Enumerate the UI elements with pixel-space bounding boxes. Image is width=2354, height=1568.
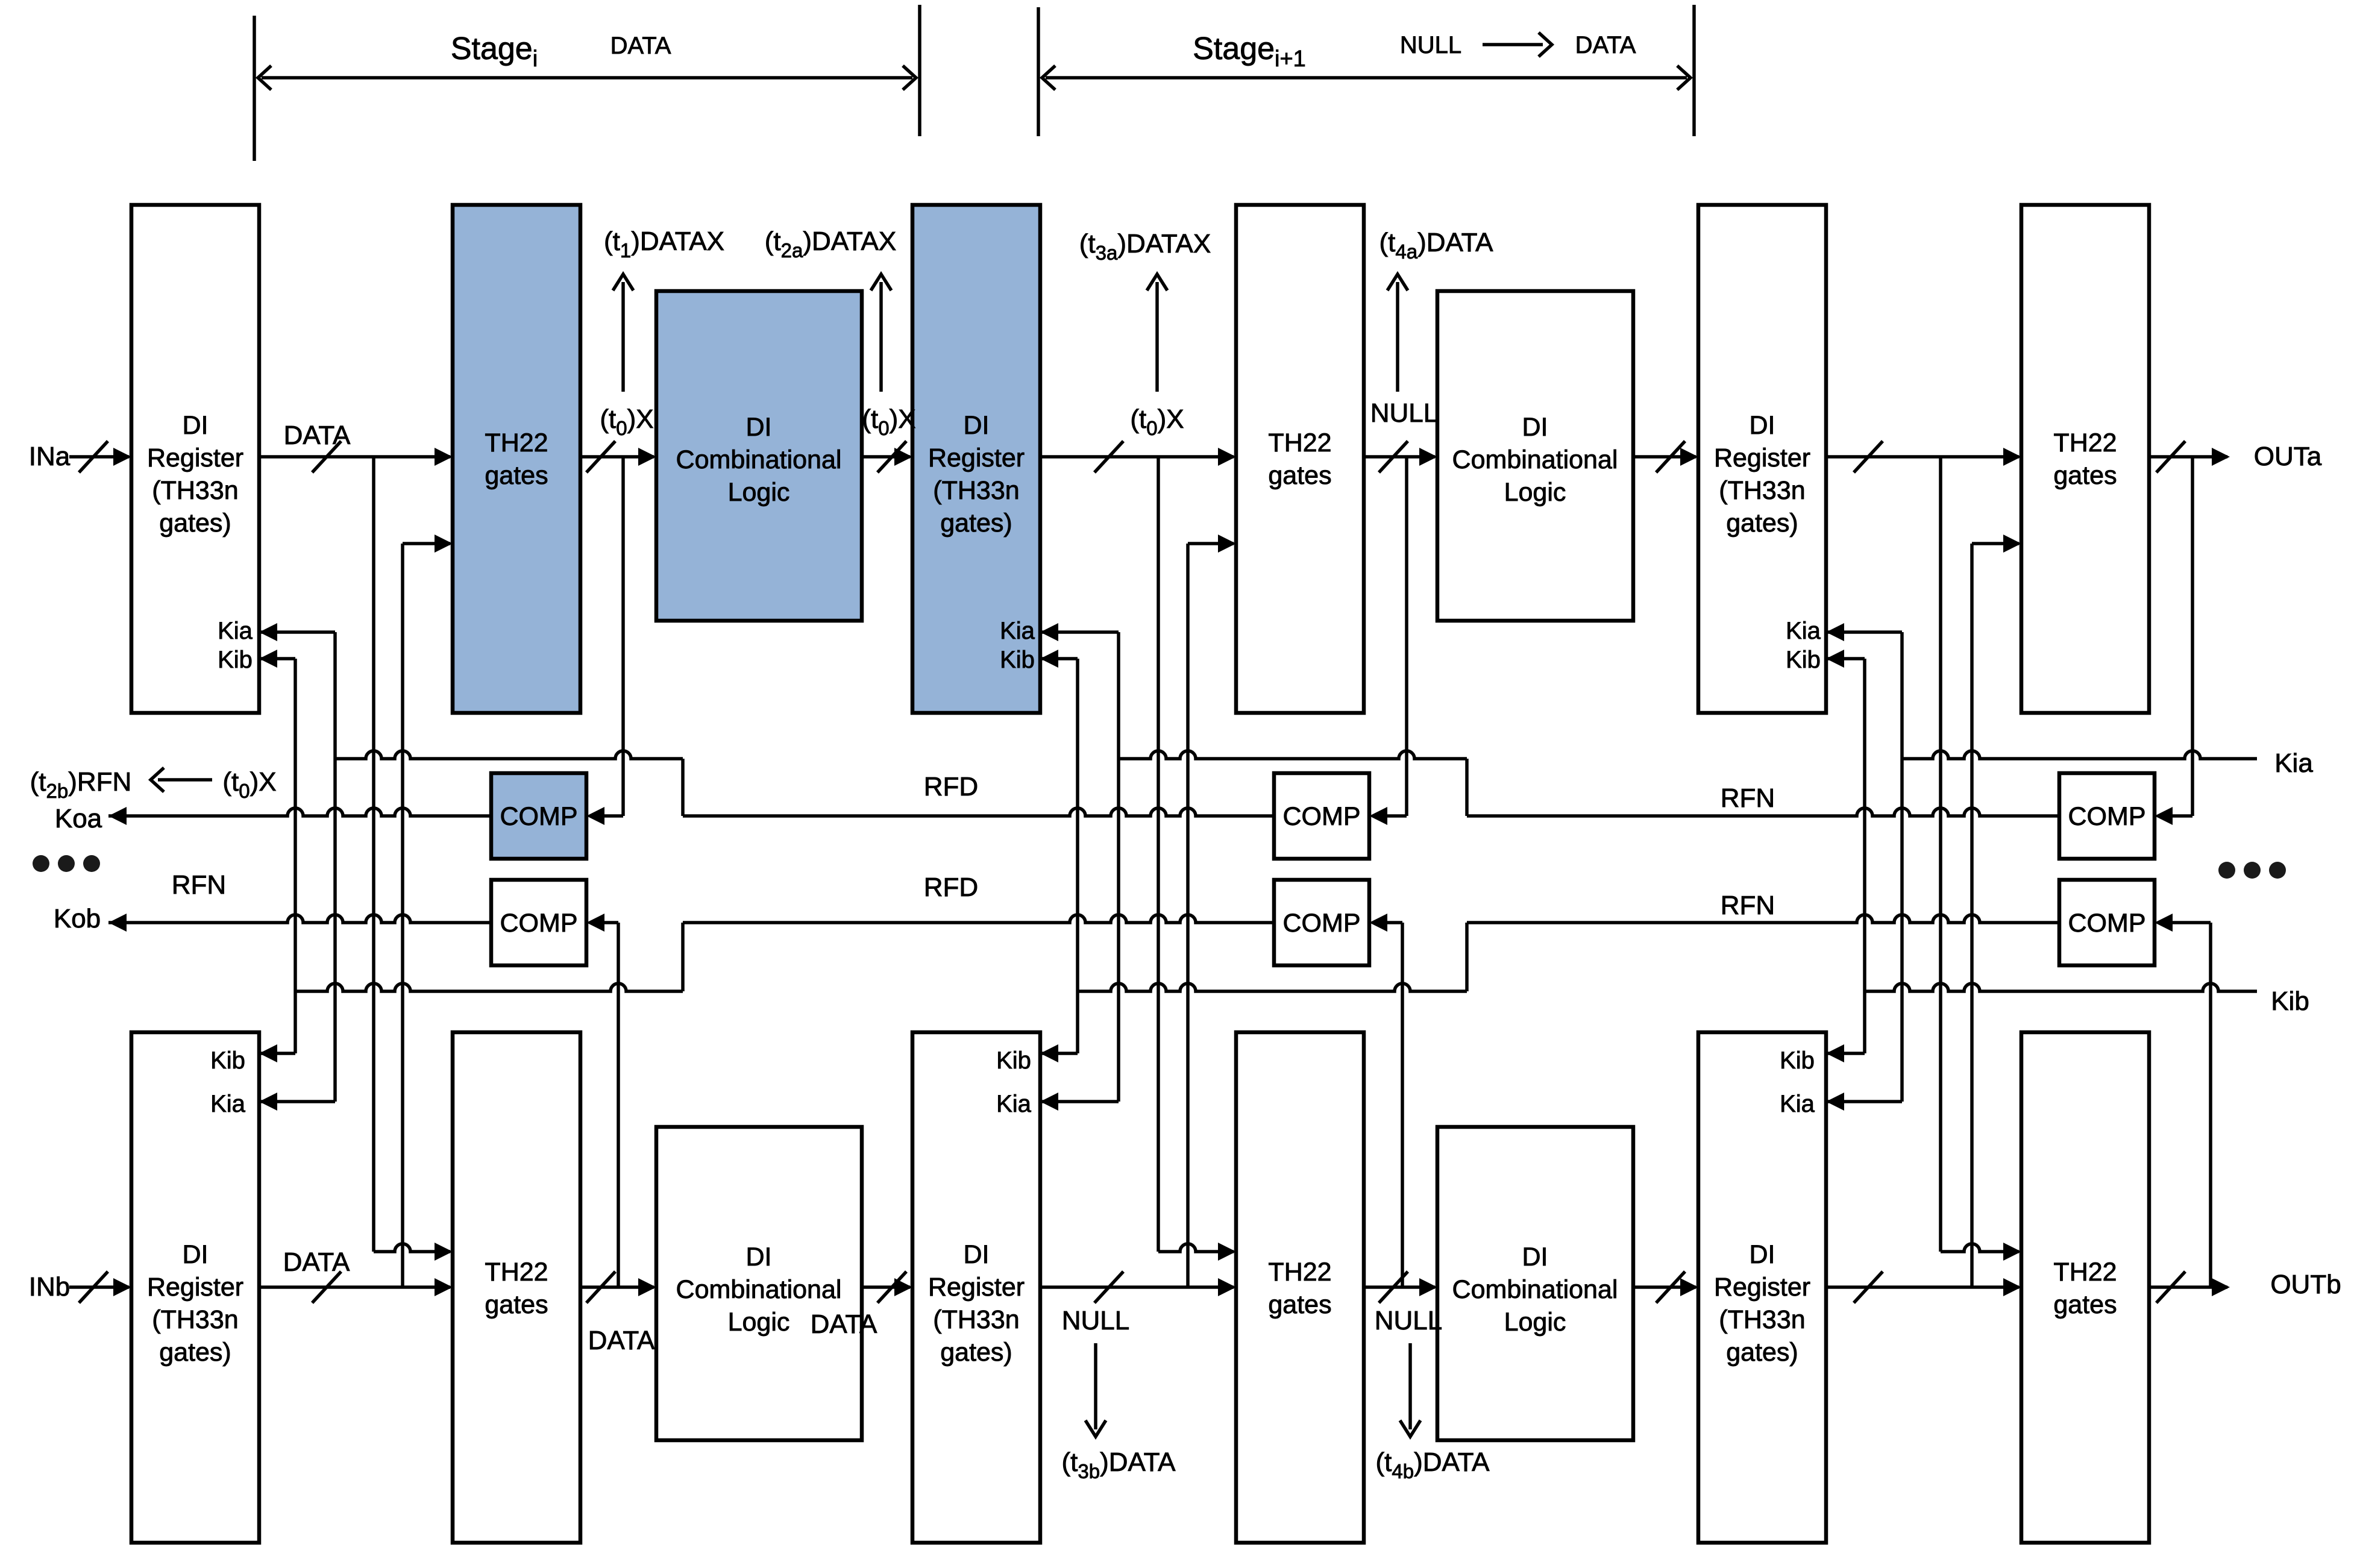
svg-text:gates): gates) <box>940 509 1012 538</box>
svg-text:gates: gates <box>1268 1290 1331 1319</box>
svg-text:gates: gates <box>485 1290 548 1319</box>
svg-text:RFD: RFD <box>924 873 978 902</box>
svg-text:DI: DI <box>183 411 209 440</box>
svg-text:Kib: Kib <box>1780 1047 1815 1074</box>
svg-text:Kia: Kia <box>1786 618 1821 644</box>
svg-text:(TH33n: (TH33n <box>933 1305 1019 1334</box>
svg-text:(TH33n: (TH33n <box>1719 476 1805 505</box>
svg-text:gates): gates) <box>159 509 231 538</box>
svg-text:Kia: Kia <box>2274 748 2313 778</box>
svg-text:DI: DI <box>746 1243 772 1272</box>
svg-text:NULL: NULL <box>1062 1306 1130 1335</box>
svg-text:gates): gates) <box>1726 509 1798 538</box>
svg-text:TH22: TH22 <box>485 428 548 457</box>
svg-text:TH22: TH22 <box>2053 428 2117 457</box>
svg-text:DI: DI <box>1750 1240 1775 1269</box>
svg-text:Kia: Kia <box>1780 1091 1815 1117</box>
svg-text:INb: INb <box>29 1272 70 1302</box>
svg-text:gates): gates) <box>940 1338 1012 1367</box>
svg-text:Register: Register <box>147 1273 243 1302</box>
svg-text:Logic: Logic <box>728 1308 790 1337</box>
svg-text:OUTb: OUTb <box>2270 1270 2341 1299</box>
svg-text:DATA: DATA <box>588 1326 655 1355</box>
svg-text:COMP: COMP <box>2068 909 2146 938</box>
svg-text:(TH33n: (TH33n <box>933 476 1019 505</box>
svg-text:Combinational: Combinational <box>676 445 842 474</box>
svg-text:gates: gates <box>2053 461 2117 490</box>
svg-text:Kib: Kib <box>996 1047 1031 1074</box>
svg-text:Register: Register <box>928 444 1025 472</box>
svg-text:DATA: DATA <box>284 421 351 450</box>
svg-text:COMP: COMP <box>1283 802 1361 831</box>
svg-text:NULL: NULL <box>1375 1306 1443 1335</box>
svg-text:Kia: Kia <box>218 618 253 644</box>
svg-text:gates: gates <box>485 461 548 490</box>
svg-text:gates: gates <box>1268 461 1331 490</box>
svg-text:DI: DI <box>183 1240 209 1269</box>
svg-text:DATA: DATA <box>610 33 671 59</box>
svg-text:Kia: Kia <box>996 1091 1032 1117</box>
svg-text:Kib: Kib <box>1000 647 1035 673</box>
svg-text:DATA: DATA <box>1575 32 1636 58</box>
svg-text:(TH33n: (TH33n <box>152 1305 238 1334</box>
svg-text:TH22: TH22 <box>2053 1258 2117 1287</box>
svg-text:Kia: Kia <box>210 1091 246 1117</box>
svg-text:Combinational: Combinational <box>676 1275 842 1304</box>
svg-text:Logic: Logic <box>1504 1308 1566 1337</box>
svg-text:DATA: DATA <box>811 1309 877 1339</box>
svg-text:COMP: COMP <box>500 802 578 831</box>
svg-text:Register: Register <box>1714 1273 1810 1302</box>
svg-text:Logic: Logic <box>1504 478 1566 507</box>
svg-text:COMP: COMP <box>500 909 578 938</box>
svg-text:RFN: RFN <box>1721 891 1775 920</box>
svg-text:Combinational: Combinational <box>1452 445 1618 474</box>
svg-text:(TH33n: (TH33n <box>152 476 238 505</box>
svg-text:Register: Register <box>1714 444 1810 472</box>
svg-text:Register: Register <box>147 444 243 472</box>
svg-text:RFN: RFN <box>172 870 226 900</box>
svg-text:Kia: Kia <box>1000 618 1035 644</box>
svg-text:NULL: NULL <box>1370 398 1439 428</box>
svg-text:Combinational: Combinational <box>1452 1275 1618 1304</box>
svg-text:TH22: TH22 <box>1268 428 1331 457</box>
svg-text:NULL: NULL <box>1400 32 1461 58</box>
svg-text:DI: DI <box>964 411 990 440</box>
svg-text:COMP: COMP <box>2068 802 2146 831</box>
svg-text:DI: DI <box>1522 1243 1548 1272</box>
svg-text:gates): gates) <box>1726 1338 1798 1367</box>
svg-text:RFD: RFD <box>924 772 978 801</box>
svg-text:DI: DI <box>1522 413 1548 442</box>
svg-text:OUTa: OUTa <box>2254 442 2322 471</box>
svg-text:DI: DI <box>746 413 772 442</box>
svg-text:DI: DI <box>1750 411 1775 440</box>
svg-text:Kib: Kib <box>1786 647 1821 673</box>
svg-text:gates): gates) <box>159 1338 231 1367</box>
svg-text:Kib: Kib <box>210 1047 245 1074</box>
svg-text:(TH33n: (TH33n <box>1719 1305 1805 1334</box>
svg-text:COMP: COMP <box>1283 909 1361 938</box>
svg-text:gates: gates <box>2053 1290 2117 1319</box>
svg-text:DI: DI <box>964 1240 990 1269</box>
svg-text:RFN: RFN <box>1721 783 1775 813</box>
svg-text:Kib: Kib <box>2271 986 2309 1016</box>
svg-text:Register: Register <box>928 1273 1025 1302</box>
svg-text:Koa: Koa <box>55 804 102 833</box>
svg-text:INa: INa <box>29 442 71 471</box>
svg-text:TH22: TH22 <box>485 1258 548 1287</box>
svg-text:Logic: Logic <box>728 478 790 507</box>
svg-text:DATA: DATA <box>283 1247 350 1277</box>
svg-text:Kob: Kob <box>54 904 101 933</box>
svg-text:TH22: TH22 <box>1268 1258 1331 1287</box>
svg-text:Stagei​: Stagei​ <box>451 31 538 72</box>
svg-text:Kib: Kib <box>218 647 253 673</box>
